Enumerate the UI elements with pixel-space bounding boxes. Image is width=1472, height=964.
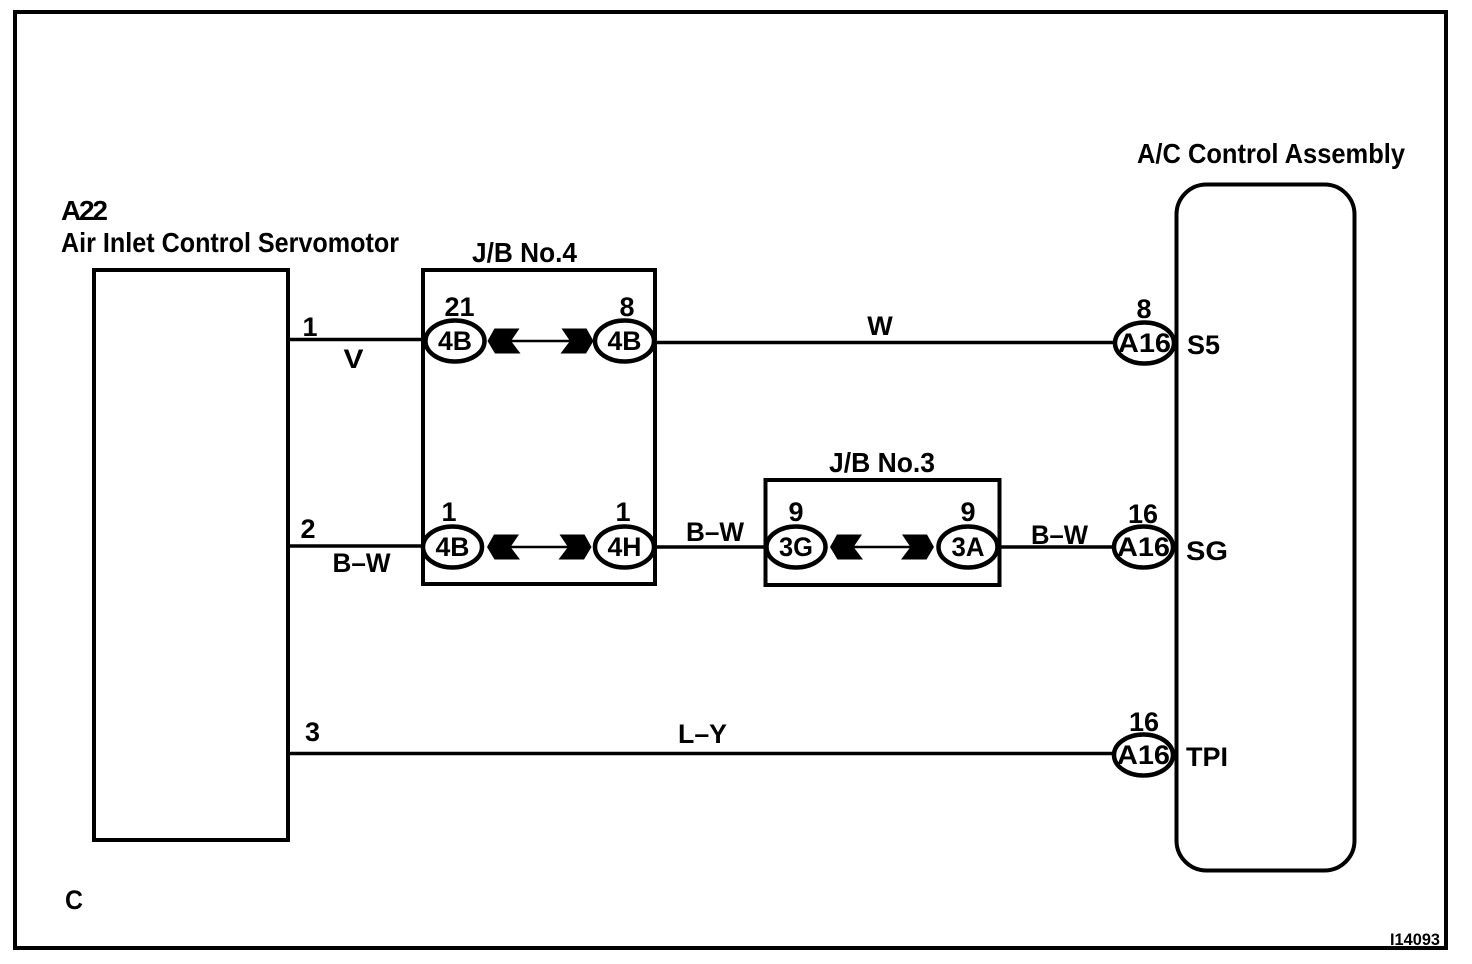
connector oval 3G pin9 <box>767 527 826 568</box>
junction block J/B No.4 (box) <box>423 270 655 584</box>
arrow J/B No.4 row2 left <box>487 535 520 560</box>
svg-text:2: 2 <box>300 514 315 544</box>
svg-text:A22: A22 <box>61 195 108 226</box>
component A22 Air Inlet Control Servomotor (block) <box>94 270 288 840</box>
svg-text:Air Inlet Control Servomotor: Air Inlet Control Servomotor <box>61 227 399 258</box>
wire J/B No.4 4B to A16 S5 (W) <box>650 341 1144 345</box>
svg-text:9: 9 <box>960 497 975 527</box>
wire between arrows row1 <box>511 340 570 343</box>
junction block J/B No.3 (box) <box>766 480 1000 585</box>
arrow J/B No.3 right <box>901 535 934 560</box>
connector oval 4B pin8 <box>595 321 654 362</box>
connector oval 4B pin21 <box>426 321 485 362</box>
wire between arrows row2 <box>511 546 569 549</box>
svg-text:8: 8 <box>1136 294 1151 324</box>
arrow J/B No.4 row2 right <box>559 535 592 560</box>
svg-text:4B: 4B <box>438 326 472 356</box>
svg-text:3A: 3A <box>952 532 985 562</box>
svg-text:4B: 4B <box>436 532 470 562</box>
connector oval 4B pin1 <box>423 527 482 568</box>
svg-text:S5: S5 <box>1187 330 1220 360</box>
svg-text:16: 16 <box>1129 707 1159 737</box>
connector oval A16 pin8 (S5) <box>1115 323 1174 364</box>
connector oval A16 pin16 (TPI) <box>1114 735 1173 776</box>
connector oval 4H pin1 <box>595 527 654 568</box>
arrow J/B No.3 left <box>830 535 863 560</box>
svg-text:I14093: I14093 <box>1390 930 1440 949</box>
svg-text:W: W <box>867 311 893 341</box>
svg-text:9: 9 <box>788 497 803 527</box>
svg-text:B–W: B–W <box>333 548 391 578</box>
arrow J/B No.4 row1 left <box>488 329 521 354</box>
svg-text:4B: 4B <box>608 326 642 356</box>
svg-text:SG: SG <box>1186 536 1228 566</box>
svg-text:TPI: TPI <box>1186 742 1228 772</box>
svg-text:3G: 3G <box>779 532 813 562</box>
component A/C Control Assembly (block) <box>1177 185 1355 871</box>
wire pin3 servomotor to A16 TPI (L-Y) <box>289 752 1143 756</box>
svg-text:L–Y: L–Y <box>678 719 727 749</box>
svg-text:21: 21 <box>444 292 474 322</box>
svg-text:A16: A16 <box>1117 740 1170 770</box>
svg-text:1: 1 <box>441 497 456 527</box>
svg-text:J/B No.3: J/B No.3 <box>829 447 935 478</box>
svg-text:4H: 4H <box>608 532 642 562</box>
svg-text:C: C <box>65 885 83 915</box>
wire J/B No.4 4H to J/B No.3 3G (B-W) <box>650 545 798 549</box>
svg-text:J/B No.4: J/B No.4 <box>472 237 577 268</box>
arrow J/B No.4 row1 right <box>561 329 594 354</box>
wire pin1 servomotor to J/B No.4 4B (V) <box>289 338 427 342</box>
svg-text:1: 1 <box>302 312 317 342</box>
svg-text:A16: A16 <box>1118 328 1171 358</box>
svg-text:A/C Control Assembly: A/C Control Assembly <box>1137 138 1405 169</box>
svg-text:1: 1 <box>615 497 630 527</box>
connector oval 3A pin9 <box>939 527 998 568</box>
svg-text:B–W: B–W <box>686 517 744 547</box>
wire pin2 servomotor to J/B No.4 4B (B-W) <box>289 544 424 548</box>
svg-text:3: 3 <box>305 717 320 747</box>
svg-text:A16: A16 <box>1117 532 1170 562</box>
connector oval A16 pin16 (SG) <box>1114 527 1173 568</box>
wire between arrows J/B No.3 <box>854 546 911 549</box>
svg-text:V: V <box>344 344 364 374</box>
svg-text:16: 16 <box>1128 499 1158 529</box>
svg-text:B–W: B–W <box>1031 520 1088 550</box>
wire J/B No.3 3A to A16 SG (B-W) <box>996 545 1143 549</box>
svg-text:8: 8 <box>619 292 634 322</box>
